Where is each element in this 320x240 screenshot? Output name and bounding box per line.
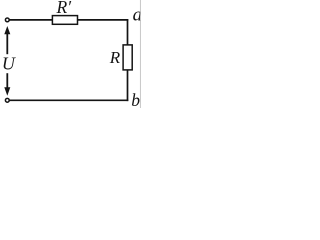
terminal circle top-left — [5, 18, 9, 22]
scan edge artifact right — [139, 0, 141, 108]
wire bottom segment — [9, 99, 128, 101]
wire top-right segment — [77, 19, 128, 21]
terminal circle bottom-left — [5, 98, 9, 102]
voltage arrow down (toward bottom terminal) — [4, 73, 10, 96]
wire right upper segment — [127, 19, 129, 45]
svg-text:R′: R′ — [56, 0, 73, 17]
wire right lower segment — [127, 70, 129, 102]
background — [0, 0, 141, 108]
resistor R (right, vertical box) — [123, 45, 132, 70]
resistor R' (top, horizontal box) — [52, 16, 77, 25]
svg-text:U: U — [2, 53, 16, 73]
wire top-left segment — [9, 19, 52, 21]
svg-text:a: a — [133, 4, 141, 25]
svg-text:b: b — [131, 90, 140, 108]
svg-text:R: R — [109, 48, 121, 67]
voltage arrow up (toward top terminal) — [4, 26, 10, 54]
